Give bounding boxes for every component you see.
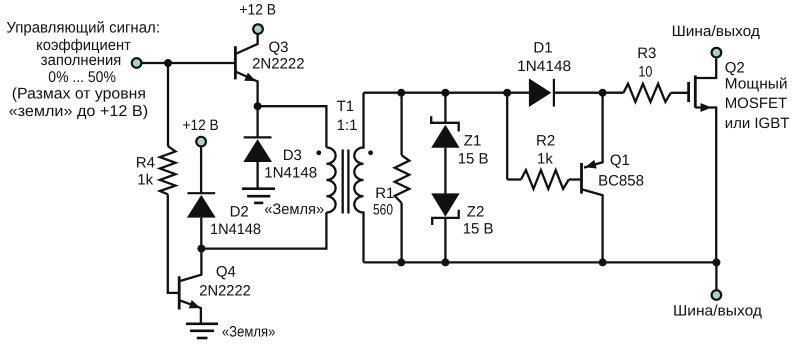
svg-text:Q3: Q3 <box>269 39 289 56</box>
terminal bus bottom <box>712 290 722 300</box>
svg-text:«Земля»: «Земля» <box>264 201 324 218</box>
junction input node <box>164 59 172 67</box>
wire top rail <box>364 92 530 94</box>
resistor R3 <box>603 84 689 102</box>
label Q4 2N2222 <box>199 263 251 299</box>
transistor Q3 <box>235 35 257 107</box>
svg-text:Мощный: Мощный <box>725 76 788 93</box>
svg-text:R3: R3 <box>637 45 656 62</box>
terminal bus top <box>712 48 722 58</box>
svg-text:1k: 1k <box>537 150 553 167</box>
junction Q3 emitter node <box>254 102 262 110</box>
label R3 10 <box>637 45 656 81</box>
wire Z1 to Z2 <box>444 148 446 194</box>
junction output bottom <box>712 258 720 266</box>
svg-text:10: 10 <box>638 64 652 81</box>
svg-text:Q4: Q4 <box>216 263 236 280</box>
label R1 560 <box>373 185 394 219</box>
svg-text:MOSFET: MOSFET <box>725 95 788 112</box>
diode D1 <box>529 78 603 107</box>
svg-text:T1: T1 <box>337 98 355 115</box>
svg-text:или IGBT: или IGBT <box>725 115 790 132</box>
wire input node down to R4 <box>167 63 169 146</box>
svg-text:2N2222: 2N2222 <box>199 283 251 300</box>
terminal +12V D2 <box>196 137 206 147</box>
svg-text:1k: 1k <box>137 171 153 188</box>
label Q1 BC858 <box>598 152 644 190</box>
svg-text:2N2222: 2N2222 <box>252 55 305 72</box>
wire R4 to Q4 base <box>168 194 178 293</box>
label Q2 type <box>725 60 790 132</box>
svg-text:Управляющий сигнал:: Управляющий сигнал: <box>6 19 160 36</box>
zener Z1 <box>431 116 459 148</box>
label R2 1k <box>536 133 555 168</box>
junction Q1 collector bottom <box>599 258 607 266</box>
label Z2 15V <box>463 204 494 238</box>
diode D3 <box>243 110 272 189</box>
diode D2 <box>187 193 216 248</box>
svg-text:560: 560 <box>373 201 393 218</box>
svg-text:1N4148: 1N4148 <box>517 58 571 75</box>
svg-text:+12 В: +12 В <box>183 117 219 134</box>
junction R1 top <box>397 89 405 97</box>
transistor Q4 <box>179 249 201 324</box>
svg-text:R2: R2 <box>536 133 555 150</box>
junction R1 bottom <box>397 258 405 266</box>
phase dot primary <box>316 150 321 155</box>
svg-text:1:1: 1:1 <box>337 117 358 134</box>
ground D3 <box>242 189 275 203</box>
svg-text:Q1: Q1 <box>610 152 630 169</box>
junction zener bottom <box>441 258 449 266</box>
svg-text:Шина/выход: Шина/выход <box>672 23 761 40</box>
junction D2 anode node <box>197 245 205 253</box>
phase dot secondary <box>368 150 373 155</box>
svg-text:+12 В: +12 В <box>239 2 276 19</box>
wire Z2 to bottom rail <box>444 218 446 263</box>
resistor R4 <box>160 146 176 194</box>
junction D1 cathode node <box>599 89 607 97</box>
label Z1 15V <box>458 133 489 168</box>
svg-text:Z1: Z1 <box>464 133 482 150</box>
svg-text:R1: R1 <box>375 185 394 202</box>
terminal input <box>132 58 142 68</box>
svg-text:1N4148: 1N4148 <box>210 221 261 238</box>
zener Z2 <box>431 193 459 225</box>
label D1 1N4148 <box>517 39 571 75</box>
terminal +12V Q3 <box>253 24 263 34</box>
transistor Q1 <box>582 93 603 263</box>
svg-text:Z2: Z2 <box>467 204 485 221</box>
transistor Q2 MOSFET <box>689 59 717 263</box>
svg-text:заполнения: заполнения <box>41 52 122 69</box>
junction zener top <box>441 89 449 97</box>
label D3 1N4148 <box>264 147 317 181</box>
label R4 1k <box>136 155 155 189</box>
svg-text:15 В: 15 В <box>458 151 489 168</box>
svg-text:D3: D3 <box>283 147 302 164</box>
svg-text:0% ... 50%: 0% ... 50% <box>48 69 116 86</box>
label D2 1N4148 <box>210 204 261 239</box>
wire to bottom terminal <box>715 262 717 290</box>
svg-text:Q2: Q2 <box>725 60 745 77</box>
junction D1 anode <box>503 89 511 97</box>
label Q3 2N2222 <box>252 39 305 73</box>
wire D1 anode node down to R2 <box>506 93 508 180</box>
wire +12V terminal to D2 <box>200 146 202 193</box>
svg-text:D2: D2 <box>230 204 249 221</box>
label T1 1:1 <box>337 98 358 134</box>
svg-text:«Земля»: «Земля» <box>222 324 276 341</box>
wire bottom rail <box>364 261 717 263</box>
svg-text:15 В: 15 В <box>463 221 494 238</box>
svg-text:1N4148: 1N4148 <box>264 164 317 181</box>
wire Q3 emitter node to T1 primary top <box>258 106 327 147</box>
wire node to T1 primary bottom <box>201 212 326 248</box>
svg-text:R4: R4 <box>136 155 155 172</box>
svg-text:BC858: BC858 <box>598 173 644 190</box>
resistor R1 <box>395 93 410 263</box>
svg-text:(Размах от уровня: (Размах от уровня <box>12 86 146 103</box>
svg-text:Шина/выход: Шина/выход <box>673 303 762 320</box>
svg-text:«земли» до +12 В): «земли» до +12 В) <box>9 103 149 120</box>
wire input to Q3 base <box>141 62 234 64</box>
control signal annotation <box>6 19 160 119</box>
ground Q4 <box>186 324 218 338</box>
wire zener branch top <box>444 93 446 123</box>
transformer T1 <box>326 93 363 263</box>
svg-text:D1: D1 <box>533 39 552 56</box>
resistor R2 <box>507 170 580 189</box>
